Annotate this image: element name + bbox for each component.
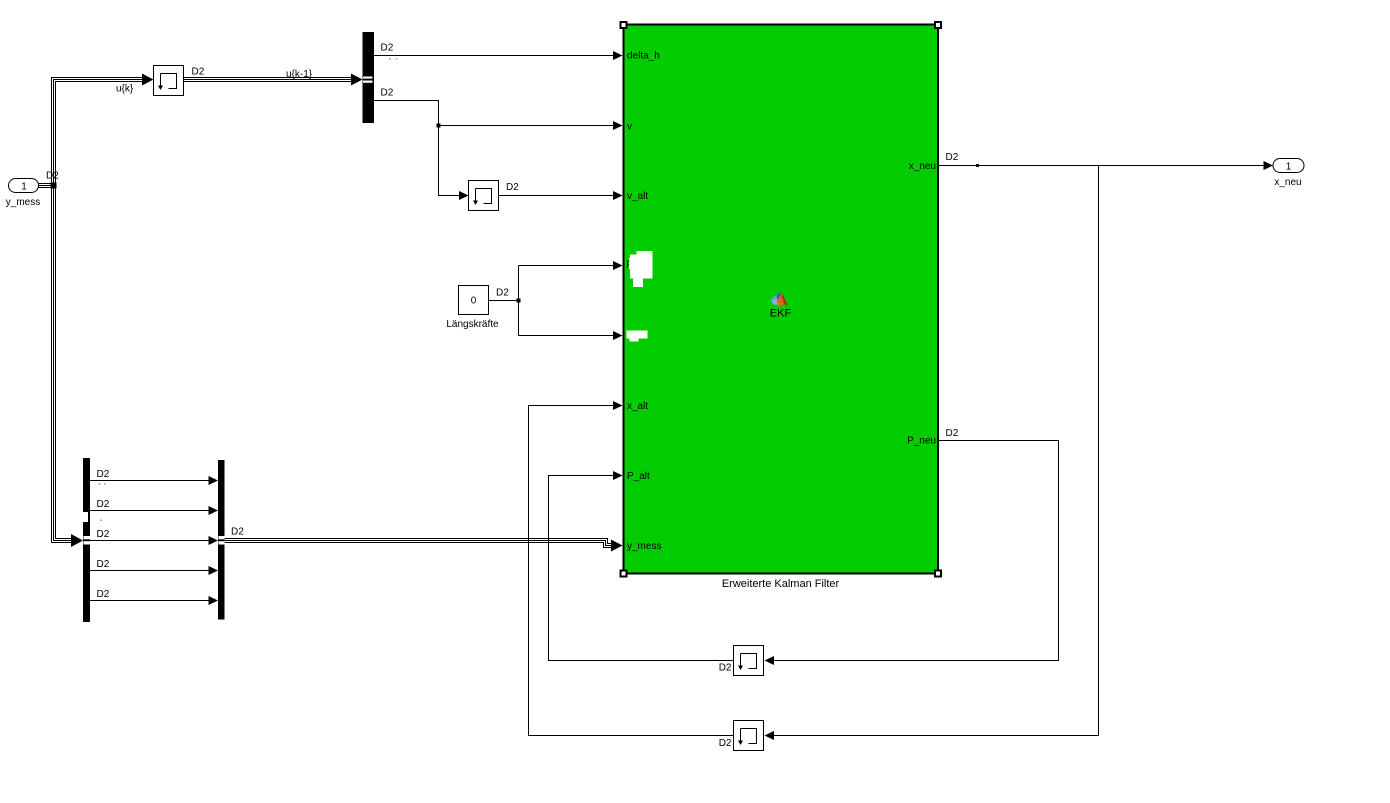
svg-text:0: 0	[471, 296, 477, 307]
arrowhead port4	[613, 261, 623, 270]
junction dot constant branch	[517, 299, 521, 303]
wire x_neu output	[939, 165, 1264, 167]
svg-text:D2: D2	[97, 559, 110, 570]
svg-text:1: 1	[21, 182, 27, 193]
wire U4 to x_alt	[529, 406, 734, 736]
svg-text:P_alt: P_alt	[627, 471, 650, 482]
arrowhead v	[613, 121, 623, 130]
arrowhead into U3	[765, 656, 775, 665]
wire branch to v port	[439, 125, 615, 127]
remnant dots under label	[389, 58, 398, 60]
arrowheads into mux M3	[209, 476, 219, 605]
svg-text:D2: D2	[381, 88, 394, 99]
unit delay U2	[469, 181, 499, 211]
arrowhead into U4	[765, 731, 775, 740]
svg-text:u{k-1}: u{k-1}	[286, 69, 313, 80]
svg-text:D2: D2	[496, 288, 509, 299]
EKF subsystem block	[624, 25, 939, 574]
svg-text:Längskräfte: Längskräfte	[446, 319, 499, 330]
port labels right side	[907, 161, 936, 447]
unit delay U4	[734, 721, 764, 751]
svg-text:D2: D2	[231, 527, 244, 538]
svg-text:D2: D2	[381, 43, 394, 54]
svg-text:u{k}: u{k}	[116, 84, 134, 95]
junction dot v branch	[437, 124, 441, 128]
svg-text:v_alt: v_alt	[627, 191, 648, 202]
svg-text:D2: D2	[97, 469, 110, 480]
white blob erased label port 4	[629, 251, 653, 287]
constant block Laengskraefte	[446, 286, 499, 331]
svg-text:D2: D2	[97, 529, 110, 540]
svg-text:x_alt: x_alt	[627, 401, 648, 412]
svg-text:D2: D2	[946, 152, 959, 163]
svg-text:x_neu: x_neu	[909, 161, 936, 172]
wire M3 to y_mess port (triple with jog)	[225, 539, 613, 548]
selection handles	[621, 22, 942, 577]
remnant F glyph	[628, 261, 630, 269]
arrowhead x_alt	[613, 401, 623, 410]
MATLAB logo	[771, 292, 788, 308]
svg-text:Erweiterte Kalman Filter: Erweiterte Kalman Filter	[722, 578, 840, 590]
white blob erased label port 5	[627, 331, 648, 342]
svg-text:D2: D2	[97, 499, 110, 510]
wire U3 to P_alt	[549, 476, 734, 661]
svg-text:P_neu: P_neu	[907, 436, 936, 447]
arrowhead delta_h	[613, 51, 623, 60]
svg-text:D2: D2	[719, 738, 732, 749]
junction dot at y_mess branch	[51, 183, 57, 189]
wire M1 out1 to delta_h	[374, 55, 614, 57]
svg-text:EKF: EKF	[770, 308, 792, 320]
mux M3 bar	[218, 460, 225, 620]
wire M1 out2	[374, 101, 459, 196]
input port 1 y_mess	[6, 179, 40, 209]
wire U1 to demux M1 (triple)	[184, 78, 353, 82]
wires M2 to M3 (5 lines)	[90, 481, 209, 601]
wire x_neu feedback to U4	[774, 166, 1099, 736]
svg-text:D2: D2	[946, 428, 959, 439]
remnant dots	[99, 483, 107, 521]
wire branch to ports 4 and 5	[518, 266, 520, 336]
svg-text:1: 1	[1286, 162, 1292, 173]
svg-text:delta_h: delta_h	[627, 51, 660, 62]
demux M2 bar	[83, 458, 90, 622]
arrowhead v_alt	[613, 191, 623, 200]
wire y_mess port to junction (triple)	[39, 184, 52, 188]
arrowhead into unit delay U1	[142, 74, 154, 86]
wire U2 to v_alt	[499, 195, 615, 197]
svg-text:D2: D2	[506, 182, 519, 193]
arrowhead into demux M1	[351, 74, 363, 86]
junction dot x_neu	[976, 164, 979, 167]
svg-text:y_mess: y_mess	[627, 541, 661, 552]
arrowhead P_alt	[613, 471, 623, 480]
demux M1 bar	[363, 32, 375, 123]
wire main vertical bus u{k} / demux (triple)	[52, 78, 144, 543]
svg-text:v: v	[627, 122, 632, 133]
unit delay U3	[734, 646, 764, 676]
arrowhead into unit delay U2	[459, 191, 469, 200]
unit delay U1	[154, 66, 184, 96]
arrowhead port5	[613, 331, 623, 340]
wire constant to branch	[489, 300, 519, 302]
signal labels D2 between M2 and M3	[97, 469, 110, 600]
svg-text:D2: D2	[97, 589, 110, 600]
svg-text:D2: D2	[192, 67, 205, 78]
svg-text:x_neu: x_neu	[1274, 177, 1301, 188]
arrowhead into demux M2	[71, 534, 83, 547]
arrowhead y_mess	[611, 540, 623, 552]
svg-text:D2: D2	[46, 171, 59, 182]
arrowhead output port	[1264, 161, 1274, 170]
wire P_neu feedback to U3	[774, 441, 1059, 661]
port labels left side	[627, 51, 661, 553]
svg-text:y_mess: y_mess	[6, 197, 40, 208]
output port 1 x_neu	[1273, 159, 1304, 189]
svg-text:D2: D2	[719, 663, 732, 674]
